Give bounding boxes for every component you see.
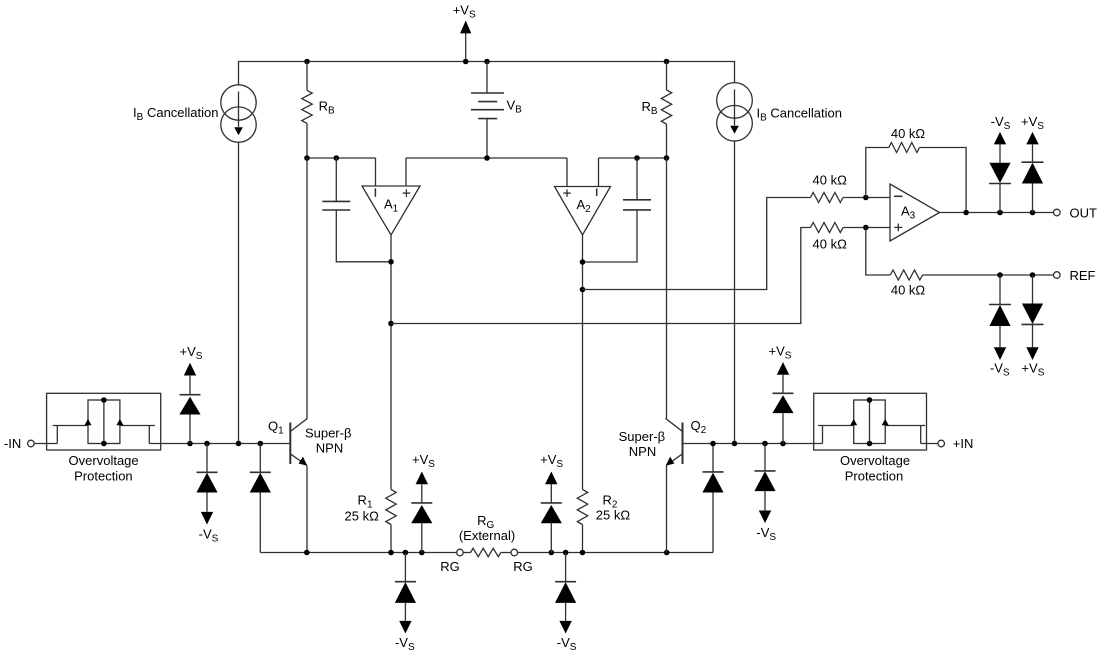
junction: -IN line / rail diode <box>258 441 264 447</box>
junction: rail / Q1 emitter <box>304 550 310 556</box>
wire: A2 inverting input <box>598 158 600 187</box>
terminal OUT <box>1054 209 1061 216</box>
wire: A1 non-inverting input <box>405 158 407 186</box>
junction: -IN line / -VS clamp <box>204 441 210 447</box>
junction: top rail / RB right <box>664 59 670 65</box>
svg-text:25 kΩ: 25 kΩ <box>596 508 631 523</box>
diode clamp rail-left to -VS <box>404 553 406 582</box>
wire: Q2 emitter to rail <box>666 466 668 553</box>
svg-text:Super-β: Super-β <box>619 429 666 444</box>
junction: A3 non-inverting node <box>863 225 869 231</box>
A2 non-inverting input marker <box>563 192 571 194</box>
junction: +IN line / -VS clamp <box>762 441 768 447</box>
junction: top rail / RB left <box>304 59 310 65</box>
overvoltage FET arrow (right-left) <box>850 419 857 425</box>
wire: A2 non-inverting input <box>566 158 568 187</box>
svg-text:RG: RG <box>440 559 460 574</box>
junction: rail / +VS clamp left <box>419 550 425 556</box>
wire: C2 bottom to A2 output <box>583 210 638 262</box>
resistor RB (right) <box>666 62 668 91</box>
A2 inverting input marker <box>596 189 598 197</box>
wire: Q1 emitter to rail <box>306 466 308 553</box>
wire: overvoltage protection to Q1 base <box>149 443 290 445</box>
wire: A3 output to OUT terminal <box>940 212 1054 214</box>
wire: left IB column down to -IN line <box>238 142 240 443</box>
wire: Q1 collector to RB left node <box>306 158 308 418</box>
op-amp A1 <box>362 186 420 235</box>
transistor Q2 super-beta NPN <box>682 423 684 465</box>
junction: rail / R1 <box>388 550 394 556</box>
junction: OUT line / -VS clamp <box>997 210 1003 216</box>
diode clamp OUT to -VS <box>999 184 1001 213</box>
op-amp A3 <box>890 184 940 241</box>
wire: left emitter rail <box>260 552 456 554</box>
junction: A3 output / feedback <box>963 210 969 216</box>
diode clamp OUT to +VS <box>1032 184 1034 213</box>
resistor R1 25 k-ohm <box>386 490 396 525</box>
junction: mid rail / RB right <box>664 155 670 161</box>
svg-text:40 kΩ: 40 kΩ <box>813 237 848 252</box>
wire: Q2 collector to RB right node <box>666 158 668 418</box>
overvoltage FET arrow (left-left) <box>85 419 92 425</box>
terminal RG (right) <box>511 549 518 556</box>
op-amp A2 <box>555 187 611 236</box>
wire: right emitter rail <box>518 552 713 554</box>
resistor 40 kOhm (A3 feedback) <box>889 143 920 153</box>
diode clamp REF to -VS <box>999 275 1001 305</box>
overvoltage protection FETs (left) <box>56 426 58 444</box>
svg-text:40 kΩ: 40 kΩ <box>891 126 926 141</box>
svg-text:40 kΩ: 40 kΩ <box>813 173 848 188</box>
junction: mid rail / RB left <box>304 155 310 161</box>
diode: right rail to +IN line <box>712 493 714 553</box>
terminal REF <box>1054 272 1061 279</box>
svg-text:+IN: +IN <box>953 436 974 451</box>
junction: overvoltage bottom node (right) <box>867 441 873 447</box>
wire: overvoltage protection to +IN terminal <box>921 443 938 445</box>
junction: rail / -VS clamp right <box>563 550 569 556</box>
resistor R2 25 k-ohm <box>577 490 587 525</box>
wire: +VS top supply rail <box>239 62 735 85</box>
wire: A1 output down to R1 <box>390 235 392 490</box>
wire: A1 output to A3 non-inverting input resistor <box>391 228 811 324</box>
junction: -IN line / IB source <box>236 441 242 447</box>
junction: rail / -VS clamp left <box>403 550 409 556</box>
diode clamp rail-right to -VS <box>565 553 567 582</box>
svg-text:NPN: NPN <box>629 444 656 459</box>
junction: A1 output / A3 branch <box>388 321 394 327</box>
wire: -IN to overvoltage protection <box>34 443 57 445</box>
resistor 40 kOhm (A3 non-inverting input) <box>811 223 844 233</box>
svg-text:REF: REF <box>1070 268 1096 283</box>
junction: overvoltage top node (left) <box>101 397 107 403</box>
wire: A1 inverting input <box>375 158 377 186</box>
junction: +IN line / +VS clamp <box>780 441 786 447</box>
battery VB <box>486 62 488 94</box>
wire: right IB column down to +IN line <box>734 141 736 444</box>
junction: +IN line / IB source <box>732 441 738 447</box>
junction: rail / R2 <box>580 550 586 556</box>
junction: top rail / +VS arrow <box>463 59 469 65</box>
junction: A2 output / C2 feedback <box>580 259 586 265</box>
svg-text:Overvoltage: Overvoltage <box>840 453 910 468</box>
svg-text:RG: RG <box>513 559 533 574</box>
diode: -IN line to left rail <box>259 444 261 473</box>
supply arrow +VS (top center) <box>465 33 467 62</box>
junction: A3 inverting node <box>863 195 869 201</box>
junction: -IN line / +VS clamp <box>187 441 193 447</box>
junction: rail / +VS clamp right <box>549 550 555 556</box>
wire: A3 non-inverting node to REF resistor <box>866 228 891 276</box>
junction: REF line / +VS clamp <box>1030 272 1036 278</box>
svg-text:(External): (External) <box>459 528 515 543</box>
A3 inverting input marker <box>894 195 903 197</box>
resistor RG external <box>463 552 470 554</box>
A1 non-inverting input marker <box>403 192 411 194</box>
svg-text:25 kΩ: 25 kΩ <box>345 508 380 523</box>
junction: mid rail / C2 <box>634 155 640 161</box>
current source IB Cancellation (right) <box>717 83 753 119</box>
wire: C1 bottom to A1 output <box>336 210 391 262</box>
wire: A3 feedback riser <box>866 148 889 198</box>
overvoltage protection box (left) <box>47 393 161 450</box>
junction: REF line / -VS clamp <box>997 272 1003 278</box>
svg-text:Overvoltage: Overvoltage <box>69 453 139 468</box>
terminal -IN <box>28 440 35 447</box>
current source IB Cancellation (left) <box>221 85 256 120</box>
resistor RB (left) <box>306 62 308 91</box>
capacitor C1 (A1 compensation) <box>335 158 337 201</box>
junction: rail / Q2 emitter <box>664 550 670 556</box>
junction: OUT line / +VS clamp <box>1030 210 1036 216</box>
diode clamp rail-left to +VS <box>421 523 423 552</box>
diode clamp -IN to -VS <box>206 444 208 473</box>
overvoltage protection box (right) <box>814 393 927 450</box>
capacitor C2 (A2 compensation) <box>636 158 638 200</box>
terminal RG (left) <box>457 549 464 556</box>
junction: A2 output / A3 branch <box>580 287 586 293</box>
junction: A1 output / C1 feedback <box>388 259 394 265</box>
junction: +IN line / rail diode <box>710 441 716 447</box>
wire: mid rail center segment (A1 non-inverting to A2 non-inverting) <box>406 157 567 159</box>
transistor Q1 super-beta NPN <box>289 423 291 465</box>
junction: overvoltage bottom node (left) <box>101 441 107 447</box>
resistor 40 kOhm (REF) <box>890 270 922 280</box>
wire: mid rail left segment (RB left to A1 inverting) <box>307 157 376 159</box>
junction: mid rail / VB <box>484 155 490 161</box>
A1 inverting input marker <box>374 188 376 197</box>
A3 non-inverting input marker <box>894 226 902 228</box>
overvoltage FET arrow (right-right) <box>882 419 889 425</box>
wire: A2 output down to R2 <box>582 235 584 490</box>
svg-text:Super-β: Super-β <box>305 426 352 441</box>
svg-text:40 kΩ: 40 kΩ <box>891 283 926 298</box>
wire: Q2 base to overvoltage protection <box>683 443 823 445</box>
diode clamp REF to +VS <box>1032 275 1034 304</box>
overvoltage FET arrow (left-right) <box>116 419 123 425</box>
junction: mid rail / C1 <box>334 155 340 161</box>
svg-text:Protection: Protection <box>845 468 904 483</box>
diode clamp -IN to +VS <box>189 415 191 444</box>
junction: overvoltage top node (right) <box>867 397 873 403</box>
wire: mid rail right segment (A2 inverting to RB right) <box>599 157 667 159</box>
wire: A2 output to A3 inverting input resistor <box>583 198 811 290</box>
diode clamp rail-right to +VS <box>550 523 552 552</box>
diode clamp +IN to -VS <box>764 444 766 471</box>
svg-text:NPN: NPN <box>316 441 343 456</box>
diode clamp +IN to +VS <box>782 413 784 443</box>
svg-text:-IN: -IN <box>4 436 21 451</box>
resistor 40 kOhm (A3 inverting input) <box>811 193 844 203</box>
svg-text:Protection: Protection <box>74 468 133 483</box>
terminal +IN <box>938 440 945 447</box>
svg-text:OUT: OUT <box>1070 206 1098 221</box>
overvoltage protection FETs (right) <box>822 426 824 444</box>
junction: top rail / VB battery <box>484 59 490 65</box>
